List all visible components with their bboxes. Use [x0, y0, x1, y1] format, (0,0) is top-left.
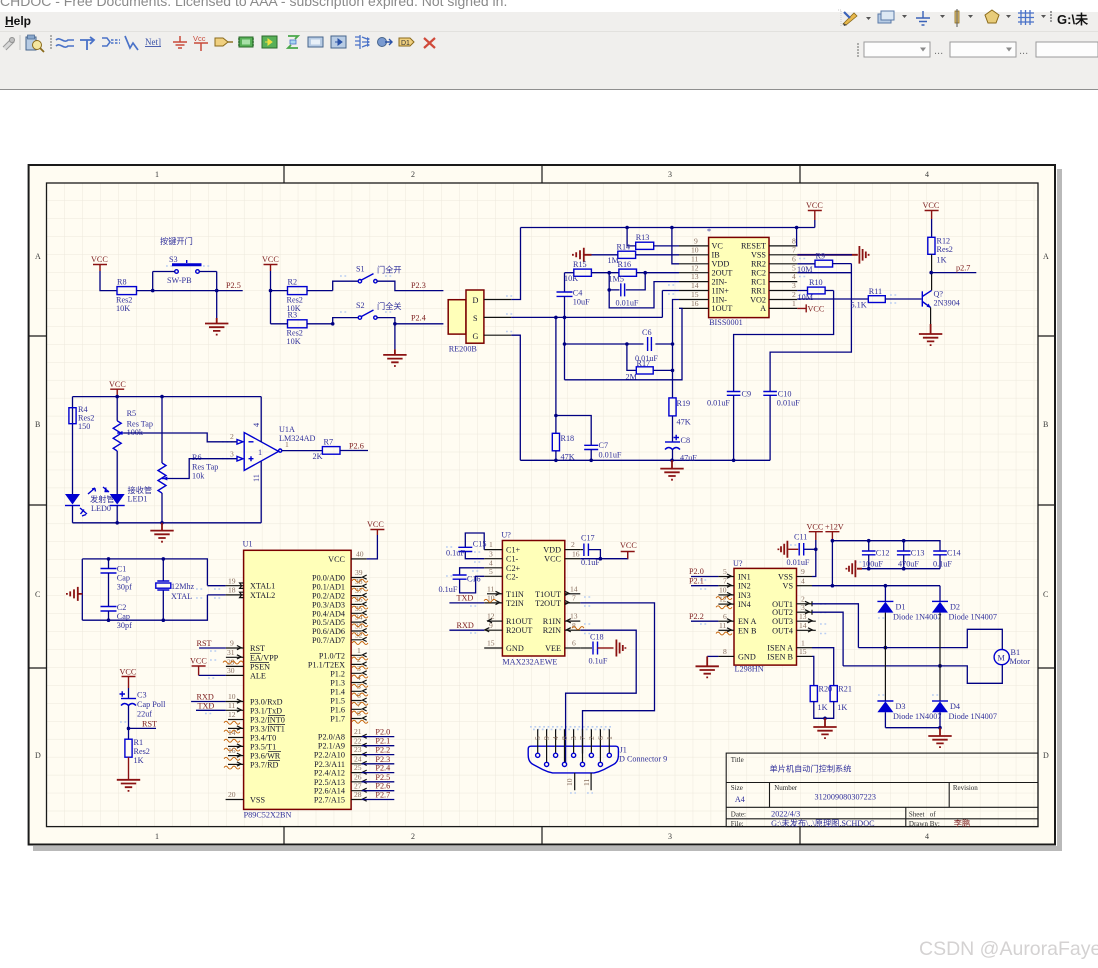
svg-text:6: 6: [723, 612, 727, 621]
svg-text:P3.5/T1: P3.5/T1: [250, 742, 276, 751]
svg-text:EN A: EN A: [738, 617, 757, 626]
svg-text:39: 39: [355, 568, 363, 577]
svg-text:9: 9: [801, 567, 805, 576]
svg-text:19: 19: [228, 576, 236, 585]
svg-text:P2.0: P2.0: [375, 728, 390, 737]
wire R7 to P2.6: [340, 450, 368, 452]
svg-text:R17: R17: [637, 359, 651, 368]
svg-text:47K: 47K: [677, 418, 691, 427]
svg-text:S2: S2: [356, 301, 365, 310]
svg-text:12: 12: [228, 710, 236, 719]
pin 10 IB: [679, 254, 709, 256]
wire S1 to P2.3: [377, 281, 443, 290]
wire P2.7: [931, 272, 976, 274]
ground (S1/S2): [383, 349, 406, 366]
svg-text:1: 1: [489, 540, 493, 549]
wire G to ground rail: [511, 335, 520, 460]
svg-text:S1: S1: [356, 265, 365, 274]
svg-text:P0.6/AD6: P0.6/AD6: [312, 627, 345, 636]
pin 11 T1IN: [487, 593, 502, 595]
svg-text:RST: RST: [142, 720, 157, 729]
svg-text:单片机自动门控制系统: 单片机自动门控制系统: [770, 764, 852, 774]
pin 8 RESET: [769, 245, 797, 247]
svg-text:4: 4: [551, 736, 560, 740]
svg-text:IB: IB: [712, 251, 721, 260]
svg-text:门全关: 门全关: [377, 301, 402, 311]
wire gnd to R14 / R14 to pin10: [592, 254, 680, 256]
svg-text:R1: R1: [134, 738, 144, 747]
svg-text:P2.5: P2.5: [375, 773, 390, 782]
svg-text:P0.0/AD0: P0.0/AD0: [312, 574, 345, 583]
svg-text:D1: D1: [896, 603, 906, 612]
svg-text:1M5: 1M5: [609, 275, 624, 284]
power +12V: [825, 523, 844, 541]
svg-text:100uF: 100uF: [862, 560, 883, 569]
svg-text:15: 15: [691, 290, 699, 299]
svg-text:4: 4: [801, 576, 805, 585]
svg-text:D: D: [1043, 751, 1049, 760]
capacitor C14: [933, 549, 961, 569]
svg-text:0.01uF: 0.01uF: [787, 558, 810, 567]
resistor R17: [626, 344, 675, 382]
svg-text:1OUT: 1OUT: [712, 304, 733, 313]
svg-text:5: 5: [792, 263, 796, 272]
svg-text:Res Tap: Res Tap: [192, 463, 218, 472]
svg-text:16: 16: [228, 746, 236, 755]
svg-text:VO2: VO2: [750, 295, 766, 304]
svg-text:Res2: Res2: [937, 245, 953, 254]
wire cap top rail: [832, 541, 940, 551]
svg-text:0.01uF: 0.01uF: [599, 451, 622, 460]
svg-text:C16: C16: [467, 575, 481, 584]
wire 1IN+ (pin14) riser from S rail: [662, 290, 679, 292]
svg-text:1IN+: 1IN+: [712, 286, 730, 295]
capacitor C8 (electrolytic): [665, 416, 697, 463]
wire xtal left rail: [81, 559, 83, 620]
pin 10 IN3: [716, 586, 734, 600]
svg-text:5: 5: [533, 736, 542, 740]
svg-text:P2.3: P2.3: [375, 755, 390, 764]
svg-text:P2.4: P2.4: [411, 314, 426, 323]
wire RST stub: [129, 727, 157, 729]
svg-text:9: 9: [694, 237, 698, 246]
SHEET: [29, 165, 1062, 851]
svg-text:8: 8: [792, 237, 796, 246]
resistor R4: [69, 405, 94, 431]
svg-text:21: 21: [354, 727, 362, 736]
svg-text:1: 1: [357, 646, 361, 655]
svg-text:12: 12: [487, 612, 495, 621]
svg-text:11: 11: [691, 254, 699, 263]
pin 6 EN A + net P2.2: [689, 612, 734, 623]
svg-text:C1+: C1+: [506, 546, 521, 555]
capacitor C17: [580, 534, 602, 568]
svg-text:Diode 1N4007: Diode 1N4007: [893, 613, 941, 622]
svg-text:C11: C11: [794, 533, 807, 542]
svg-text:P0.5/AD5: P0.5/AD5: [312, 618, 345, 627]
wire xtal top rail: [82, 559, 207, 586]
power VCC (BISS rail): [806, 201, 823, 228]
svg-text:R9: R9: [816, 252, 826, 261]
DB9 pin stubs: [538, 729, 610, 762]
pin 9 VC: [679, 245, 709, 247]
svg-text:LED1: LED1: [128, 495, 148, 504]
svg-text:G:\未发布\..\原理图.SCHDOC: G:\未发布\..\原理图.SCHDOC: [771, 818, 875, 828]
svg-text:P2.6: P2.6: [375, 782, 390, 791]
pin 19 XTAL1: [207, 576, 275, 590]
pin 4 VS + wire: [797, 576, 941, 587]
wire RR2 (pin6) to R9: [797, 263, 851, 265]
svg-text:P0.2/AD2: P0.2/AD2: [312, 592, 345, 601]
svg-text:8: 8: [572, 621, 576, 630]
TITLEBLOCK: [726, 753, 1038, 828]
svg-text:李鹏: 李鹏: [954, 818, 970, 828]
resistor R8: [116, 278, 137, 314]
op-amp U1A LM324AD: [237, 397, 315, 523]
diode D1: [877, 586, 941, 648]
HEADER ICONS: [3, 9, 1098, 57]
svg-text:L298HN: L298HN: [735, 665, 764, 674]
pin 1 ISEN A: [797, 638, 834, 685]
capacitor C16: [439, 568, 485, 594]
svg-text:R8: R8: [117, 278, 127, 287]
pin 7 VSS: [769, 254, 797, 256]
svg-text:1: 1: [792, 299, 796, 308]
LED LED0: [65, 488, 115, 516]
svg-text:22: 22: [354, 736, 362, 745]
svg-text:P0.4/AD4: P0.4/AD4: [312, 609, 345, 618]
svg-text:EN B: EN B: [738, 626, 757, 635]
DB9 pin circles: [536, 753, 612, 766]
svg-text:C12: C12: [876, 549, 890, 558]
wire R6 tap to op-amp pin3: [168, 459, 237, 479]
capacitor C1: [101, 559, 133, 607]
svg-text:10K: 10K: [564, 274, 578, 283]
svg-text:P3.7/RD: P3.7/RD: [250, 760, 279, 769]
svg-text:30pf: 30pf: [117, 583, 132, 592]
svg-text:P3.6/WR: P3.6/WR: [250, 752, 281, 761]
pin 9 R2OUT: [484, 629, 502, 631]
svg-text:GND: GND: [738, 652, 756, 661]
junction: [151, 289, 155, 293]
svg-text:Cap Poll: Cap Poll: [137, 700, 166, 709]
svg-text:3: 3: [801, 603, 805, 612]
wire R15 to R16: [591, 272, 619, 274]
resistor R11: [851, 287, 886, 310]
capacitor C9: [707, 390, 751, 461]
svg-text:3: 3: [668, 170, 672, 179]
pin 3 C1-: [484, 558, 502, 560]
pin 7 T2OUT: [565, 602, 581, 604]
svg-text:D Connector 9: D Connector 9: [619, 755, 667, 764]
svg-text:XTAL1: XTAL1: [250, 582, 275, 591]
svg-text:Net]: Net]: [145, 37, 161, 47]
wire +12V to VS and cap rail: [831, 541, 833, 586]
svg-text:6: 6: [572, 639, 576, 648]
resistor R19: [669, 398, 691, 427]
svg-text:IN1: IN1: [738, 573, 751, 582]
svg-text:1K: 1K: [134, 756, 144, 765]
wire R9/RC2 to C10 loop: [770, 264, 851, 392]
svg-text:VC: VC: [712, 242, 724, 251]
pin 5 C2-: [484, 575, 502, 577]
pin 3 OUT2: [797, 603, 813, 615]
svg-text:接收管: 接收管: [128, 485, 153, 495]
svg-text:P2.0: P2.0: [689, 567, 704, 576]
svg-text:28: 28: [354, 790, 362, 799]
capacitor C18: [580, 633, 613, 666]
wire bottom rail: [73, 522, 262, 524]
svg-text:D: D: [473, 296, 479, 305]
svg-text:10K: 10K: [116, 304, 130, 313]
wire R2 row: [271, 281, 359, 290]
resistor R2: [287, 278, 308, 314]
svg-text:30: 30: [227, 666, 235, 675]
pin 12 2OUT: [679, 272, 709, 274]
svg-text:C17: C17: [581, 534, 595, 543]
svg-text:24: 24: [354, 754, 362, 763]
svg-text:VCC: VCC: [808, 305, 825, 314]
svg-text:2: 2: [571, 540, 575, 549]
DB9 pin numbers (rotated): [533, 736, 614, 740]
svg-text:P2.3/A11: P2.3/A11: [314, 760, 345, 769]
svg-text:P2.4/A12: P2.4/A12: [314, 769, 345, 778]
svg-text:RXD: RXD: [197, 693, 214, 702]
svg-text:VCC: VCC: [620, 541, 637, 550]
resistor R7: [313, 438, 341, 462]
svg-text:VCC: VCC: [91, 255, 108, 264]
pin 15 ISEN B: [797, 647, 814, 686]
svg-text:T1IN: T1IN: [506, 590, 524, 599]
svg-text:P1.1/T2EX: P1.1/T2EX: [308, 660, 345, 669]
wire OUT2 to bridge mid rail 2: [812, 612, 843, 666]
svg-text:U1: U1: [243, 540, 253, 549]
svg-text:14: 14: [799, 621, 807, 630]
svg-text:R2IN: R2IN: [543, 626, 561, 635]
svg-text:TXD: TXD: [198, 701, 215, 710]
pin 31 EA/VPP: [226, 648, 279, 662]
svg-text:C18: C18: [590, 633, 604, 642]
svg-text:3: 3: [668, 832, 672, 841]
svg-text:P3.0/RxD: P3.0/RxD: [250, 698, 283, 707]
pin 16 1OUT: [679, 307, 709, 309]
svg-text:门全开: 门全开: [377, 265, 402, 275]
power VCC (Q branch): [923, 201, 940, 219]
svg-text:10uF: 10uF: [573, 298, 590, 307]
svg-text:Drawn By:: Drawn By:: [909, 820, 940, 828]
svg-text:OUT4: OUT4: [772, 626, 793, 635]
wire R13: [627, 228, 679, 246]
svg-text:C6: C6: [642, 328, 652, 337]
power VCC (S3 branch): [91, 255, 108, 271]
switch S1: [356, 265, 402, 283]
svg-text:9: 9: [542, 736, 551, 740]
svg-text:R1OUT: R1OUT: [506, 617, 532, 626]
svg-text:18: 18: [228, 586, 236, 595]
svg-text:10: 10: [228, 692, 236, 701]
svg-text:VCC: VCC: [109, 380, 126, 389]
pin 4 RC1: [769, 281, 797, 283]
pin 14 T1OUT: [565, 593, 581, 595]
wire LED0 to bottom rail: [72, 506, 74, 523]
svg-text:Title: Title: [731, 756, 744, 764]
svg-text:10M: 10M: [797, 265, 813, 274]
svg-text:P0.7/AD7: P0.7/AD7: [312, 636, 345, 645]
svg-text:8: 8: [560, 736, 569, 740]
svg-text:ISEN A: ISEN A: [767, 644, 793, 653]
svg-text:RE200B: RE200B: [449, 345, 478, 354]
svg-text:P1.4: P1.4: [330, 687, 345, 696]
svg-text:VDD: VDD: [543, 546, 561, 555]
resistor R13: [636, 233, 654, 249]
svg-text:0.1uF: 0.1uF: [933, 560, 952, 569]
resistor R12: [928, 237, 953, 265]
pin 5 RC2: [769, 272, 797, 274]
svg-text:C15: C15: [473, 540, 487, 549]
svg-text:U1A: U1A: [279, 425, 295, 434]
wire VO2 (pin2) to R11: [797, 298, 868, 300]
pin 6 VEE: [565, 647, 581, 649]
transistor Q? 2N3904: [922, 290, 960, 308]
svg-text:*: *: [707, 227, 711, 236]
wire T2OUT to DB9 pin7: [580, 603, 654, 754]
diode D3: [877, 648, 941, 728]
svg-text:VCC: VCC: [262, 255, 279, 264]
svg-text:Q?: Q?: [934, 290, 944, 299]
svg-text:Date:: Date:: [731, 811, 746, 819]
svg-text:+12V: +12V: [825, 523, 844, 532]
capacitor C12: [862, 541, 890, 569]
svg-text:C9: C9: [742, 390, 752, 399]
svg-text:P2.7: P2.7: [375, 791, 390, 800]
svg-text:3: 3: [792, 281, 796, 290]
resistor R5 (Res Tap): [113, 397, 153, 495]
svg-text:VCC: VCC: [120, 668, 137, 677]
svg-text:按键开门: 按键开门: [160, 236, 193, 246]
svg-text:...: ...: [1019, 45, 1028, 57]
capacitor C2: [101, 603, 133, 630]
wire VCC top rail: [521, 227, 815, 229]
svg-text:VS: VS: [783, 582, 794, 591]
ground (Q): [919, 324, 942, 345]
svg-text:P2.2/A10: P2.2/A10: [314, 751, 345, 760]
pin 5 IN1 + net P2.0: [689, 567, 734, 578]
wire D to VCC rail: [511, 228, 520, 300]
svg-text:6: 6: [792, 254, 796, 263]
svg-text:M: M: [998, 654, 1006, 663]
wire RESET to VCC rail: [796, 228, 799, 246]
svg-text:D1: D1: [401, 40, 410, 47]
svg-text:G: G: [473, 332, 479, 341]
svg-text:Revision: Revision: [953, 784, 978, 792]
resistor R3: [287, 311, 308, 347]
pin 13 P3.3/INT1: [224, 724, 285, 733]
svg-text:11: 11: [228, 701, 236, 710]
svg-text:A: A: [760, 304, 766, 313]
svg-text:P2.4: P2.4: [375, 764, 390, 773]
svg-text:D4: D4: [950, 702, 960, 711]
pin 8 R2IN: [565, 629, 581, 631]
wire S3 to ground: [216, 291, 218, 318]
svg-text:ISEN B: ISEN B: [767, 652, 793, 661]
pin 1 A: [769, 307, 797, 309]
pin 15 1IN-: [679, 299, 709, 301]
svg-text:2OUT: 2OUT: [712, 269, 733, 278]
power VCC (S1/S2 branch): [262, 255, 279, 271]
pin 13 R1IN: [565, 620, 581, 622]
ground (C11, sideways): [778, 541, 787, 558]
wire R1 to ground: [128, 757, 130, 780]
power VCC (op-amp block): [109, 380, 126, 397]
svg-text:BISS0001: BISS0001: [709, 318, 743, 327]
svg-text:VDD: VDD: [712, 260, 730, 269]
svg-text:P2.6/A14: P2.6/A14: [314, 787, 345, 796]
svg-text:VCC: VCC: [806, 201, 823, 210]
svg-text:16: 16: [572, 549, 580, 558]
svg-text:P1.6: P1.6: [330, 705, 345, 714]
svg-text:P89C52X2BN: P89C52X2BN: [244, 811, 292, 820]
svg-text:P1.7: P1.7: [330, 715, 345, 724]
pin 16 P3.6/WR: [224, 746, 281, 760]
svg-text:VCC: VCC: [190, 657, 207, 666]
pin 30 ALE + VCC: [190, 657, 266, 681]
wire S2 to P2.4: [377, 318, 443, 324]
right combos row: [857, 42, 1098, 57]
svg-text:P2.1: P2.1: [375, 737, 390, 746]
svg-text:P2.7/A15: P2.7/A15: [314, 796, 345, 805]
svg-text:C1: C1: [117, 565, 127, 574]
svg-text:14: 14: [570, 584, 578, 593]
pin 18 XTAL2: [207, 586, 275, 600]
ground (cap rail, sideways): [846, 560, 862, 577]
svg-text:26: 26: [354, 772, 362, 781]
svg-text:R10: R10: [809, 278, 823, 287]
wire R3 row: [271, 318, 359, 324]
wire R11 to Q base: [885, 298, 921, 300]
compile marks (decorative): [120, 259, 940, 794]
wire S rail: [511, 291, 662, 318]
svg-text:P1.2: P1.2: [330, 669, 345, 678]
svg-text:C8: C8: [681, 436, 691, 445]
wire VCC(16) to power: [580, 552, 627, 559]
DB9 shield pins 10/11: [565, 773, 591, 790]
svg-text:11: 11: [252, 474, 261, 482]
power VCC (reset): [120, 668, 137, 689]
svg-text:C: C: [35, 590, 40, 599]
pin 14 1IN+: [679, 290, 709, 292]
svg-text:Diode 1N4007: Diode 1N4007: [949, 613, 997, 622]
wire ground rail: [520, 459, 770, 461]
svg-text:10: 10: [565, 778, 574, 786]
svg-text:G:\未: G:\未: [1057, 12, 1089, 27]
svg-text:1K: 1K: [937, 256, 947, 265]
svg-text:23: 23: [354, 745, 362, 754]
svg-text:S: S: [473, 314, 478, 323]
svg-text:9: 9: [230, 639, 234, 648]
pin 17 P3.7/RD: [224, 760, 280, 769]
svg-text:p2.7: p2.7: [956, 264, 970, 273]
wire xtal bottom rail: [82, 595, 207, 620]
svg-text:R1IN: R1IN: [543, 617, 561, 626]
LED LED1: [103, 485, 152, 506]
svg-text:P1.3: P1.3: [330, 679, 345, 688]
svg-text:P0.3/AD3: P0.3/AD3: [312, 600, 345, 609]
wire cap bottom rail: [862, 568, 940, 570]
svg-text:B: B: [35, 420, 40, 429]
svg-text:4: 4: [792, 272, 796, 281]
svg-text:13: 13: [570, 612, 578, 621]
svg-text:1: 1: [258, 448, 262, 457]
